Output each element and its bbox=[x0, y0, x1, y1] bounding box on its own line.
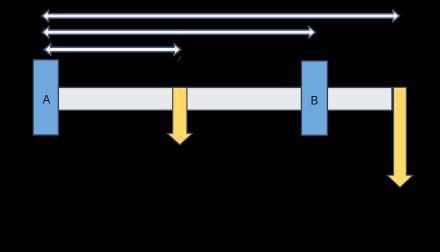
dimension arrow d1 bbox=[42, 10, 400, 21]
support A bbox=[33, 60, 58, 135]
beam bbox=[46, 87, 393, 110]
svg-text:A: A bbox=[43, 94, 51, 106]
dimension arrow d2 bbox=[42, 27, 315, 38]
svg-text:B: B bbox=[311, 96, 319, 108]
stray tick bbox=[178, 57, 181, 62]
support B bbox=[301, 61, 327, 135]
force arrow F2 bbox=[387, 87, 413, 187]
dimension arrow d3 bbox=[44, 44, 181, 55]
force arrow F1 bbox=[167, 87, 192, 144]
